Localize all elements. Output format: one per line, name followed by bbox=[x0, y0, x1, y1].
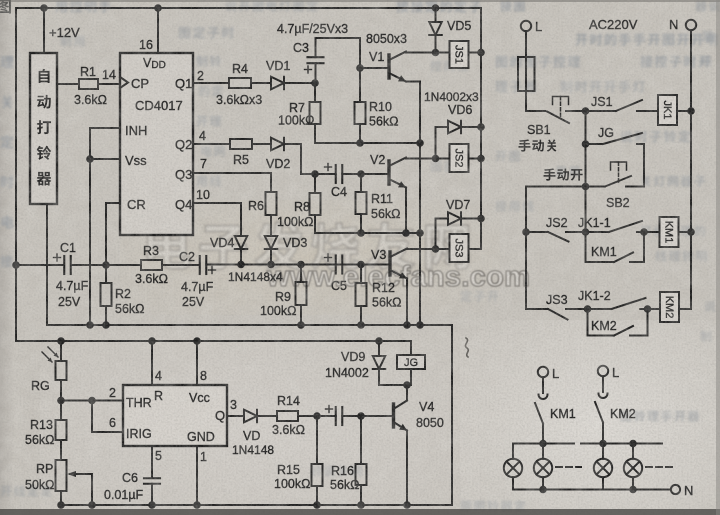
node +12V tap VD5 bbox=[432, 4, 440, 12]
wire JG to SB2 bbox=[643, 144, 645, 187]
node VD4 out bbox=[237, 261, 245, 269]
wire V1 base bbox=[360, 67, 389, 69]
wire rail corner to JG bbox=[410, 341, 412, 355]
node left rail C1 row bbox=[12, 261, 20, 269]
wire left +12V rail bbox=[15, 8, 17, 341]
wire lamp bus 2 bbox=[581, 443, 662, 445]
resistor R15 100k bbox=[316, 416, 318, 464]
transistor V1 bbox=[387, 55, 390, 78]
node V1 base bbox=[356, 64, 364, 72]
relay JS2 bbox=[436, 158, 450, 160]
lamp EL1 bbox=[504, 459, 522, 477]
node JS2 row left bbox=[522, 228, 530, 236]
capacitor C2 4.7uF/25V bbox=[200, 256, 207, 274]
node KM2 coil bbox=[644, 305, 652, 313]
node R9 gnd bbox=[297, 321, 305, 329]
resistor R16 56k bbox=[360, 416, 362, 464]
resistor R9 100k bbox=[300, 265, 302, 283]
wire rail to C1 bbox=[16, 264, 64, 266]
wire lamp1 gnd bbox=[512, 477, 514, 489]
node THR branch bbox=[88, 397, 96, 405]
wire V1 collector bbox=[406, 52, 436, 54]
node KM1 coil bbox=[640, 228, 648, 236]
label manual-on bbox=[544, 168, 556, 180]
capacitor C5 bbox=[336, 256, 343, 274]
resistor R3 bbox=[141, 260, 162, 270]
transistor V2 bbox=[387, 161, 390, 184]
resistor R4 bbox=[229, 78, 251, 88]
resistor R12 56k bbox=[360, 265, 362, 284]
capacitor C6 0.01uF bbox=[144, 478, 160, 484]
wire ground rail bottom bbox=[61, 504, 452, 506]
node RG tap bbox=[57, 337, 65, 345]
lamp EL4 bbox=[624, 459, 642, 477]
wire lamp1 drop bbox=[512, 444, 514, 459]
node V2 base bbox=[357, 170, 365, 178]
wire SB1 node down bbox=[585, 111, 587, 232]
wire lamp2 drop bbox=[542, 444, 544, 459]
node RP wiper gnd bbox=[88, 501, 96, 509]
wire ground row bbox=[47, 325, 452, 505]
terminal N bbox=[686, 20, 696, 30]
wire pin1 gnd bbox=[196, 446, 198, 505]
wire VD2 to C4 node bbox=[301, 144, 315, 174]
resistor R13 56k bbox=[60, 401, 62, 421]
node V1 emitter bus bbox=[416, 139, 424, 147]
node SB2 row bbox=[582, 183, 590, 191]
contact JK1-2 bbox=[588, 308, 612, 310]
capacitor C7 bbox=[336, 407, 343, 425]
wire Q1 pin2 bbox=[193, 82, 229, 84]
wire Q3 pin7 bbox=[193, 173, 271, 192]
node V3 collector bbox=[432, 245, 440, 253]
diode VD 1N4148 bbox=[244, 410, 257, 422]
wire INH to ground branch bbox=[90, 128, 120, 159]
pin CP clock triangle bbox=[120, 77, 128, 88]
node R16 gnd bbox=[357, 501, 365, 509]
contact KM2 parallel bbox=[587, 309, 589, 336]
node lamp4 top bbox=[629, 440, 637, 448]
node R10 bottom bbox=[356, 139, 364, 147]
node C4-R8 bbox=[311, 170, 319, 178]
node KM1-N bbox=[687, 228, 695, 236]
diode VD4 bbox=[235, 236, 247, 249]
node V2 collector bbox=[432, 155, 440, 163]
wire emitter row 1 bbox=[315, 142, 420, 144]
node V1 collector bbox=[432, 49, 440, 57]
wire right +12V relay bus bbox=[480, 8, 482, 249]
contact KM1 parallel bbox=[585, 232, 587, 262]
node JS3-JK12 bbox=[584, 305, 592, 313]
contact JK1-1 bbox=[586, 231, 609, 233]
wire V2 emitter down bbox=[405, 188, 407, 234]
node KM2 lamps bbox=[599, 440, 607, 448]
wire TRIG branch bbox=[92, 401, 123, 433]
node bus gnd bbox=[416, 321, 424, 329]
relay JG bbox=[397, 355, 425, 369]
IC U2 555 outline bbox=[123, 385, 227, 446]
wire VD9 JG join bbox=[379, 384, 411, 386]
contact JS1 bbox=[586, 110, 616, 112]
diode VD7 bbox=[436, 218, 449, 220]
wire lamp3 gnd bbox=[602, 477, 604, 489]
wire lamp bus 1 bbox=[513, 443, 574, 445]
dashes group1 bbox=[556, 466, 581, 468]
wire Vss to ground branch bbox=[90, 159, 120, 325]
wire +12V top bus bbox=[16, 7, 481, 9]
contact JS3 bbox=[548, 309, 568, 320]
wire lamp4 gnd bbox=[632, 477, 634, 489]
photoresistor RG bbox=[60, 341, 62, 361]
wire fuse to SB1 bbox=[526, 91, 545, 111]
transistor V4 bbox=[392, 404, 395, 427]
switch SB1 manual-off bbox=[547, 112, 569, 124]
wire V3 emitter bbox=[406, 279, 408, 326]
wire emitter row 2 bbox=[315, 232, 420, 234]
wire C3 top to V1 base bbox=[315, 38, 317, 57]
relay KM1 bbox=[644, 231, 660, 233]
relay JK1 bbox=[644, 110, 658, 112]
node lamp2 gnd bbox=[539, 486, 547, 494]
automatic bell ringer unit bbox=[30, 53, 57, 204]
node RP bottom gnd bbox=[57, 501, 65, 509]
lamp EL2 bbox=[534, 459, 552, 477]
node JS2 bus bbox=[477, 155, 485, 163]
wire N line bbox=[690, 30, 692, 309]
relay JS1 bbox=[436, 52, 450, 54]
wire bell unit output to ground rail bbox=[46, 204, 48, 325]
node VD9 tap bbox=[375, 337, 383, 345]
wire C3 bottom bbox=[315, 63, 317, 83]
node +12V tap bell bbox=[40, 4, 48, 12]
wire V4 collector bbox=[406, 385, 408, 401]
capacitor C3 4.7uF/25V bbox=[308, 57, 324, 63]
wire V2 base bbox=[361, 173, 389, 175]
resistor R1 bbox=[57, 83, 79, 85]
node V3 base bbox=[357, 261, 365, 269]
wire pin5 to C6 bbox=[151, 446, 153, 478]
node R15 bbox=[313, 412, 321, 420]
node V4 emitter gnd bbox=[403, 501, 411, 509]
node R2 ground bbox=[102, 321, 110, 329]
contact JG bbox=[586, 143, 604, 145]
capacitor C4 bbox=[336, 165, 343, 183]
wire C6 gnd bbox=[151, 484, 153, 505]
node reset CR/R2/R3 bbox=[102, 261, 110, 269]
contact JS2 bbox=[526, 231, 548, 233]
resistor R8 100k bbox=[314, 174, 316, 193]
wire JG to collector node bbox=[410, 369, 412, 385]
wire V2 collector bbox=[406, 158, 436, 160]
terminal L lamp2 bbox=[598, 366, 608, 376]
switch KM1 blade bbox=[542, 377, 544, 393]
resistor R10 56k bbox=[359, 68, 361, 102]
wire C1 to reset node bbox=[71, 264, 141, 266]
node R15 gnd bbox=[313, 501, 321, 509]
terminal L bbox=[521, 21, 531, 31]
wire Q2 pin4 bbox=[193, 143, 230, 145]
node THR bbox=[57, 397, 65, 405]
node KM1 lamps bbox=[539, 440, 547, 448]
wire VDD pin16 bbox=[157, 8, 159, 53]
terminal N lamps bbox=[671, 485, 680, 494]
node INH-Vss bbox=[86, 155, 94, 163]
node C6 gnd bbox=[148, 501, 156, 509]
node INH-Vss gnd bbox=[86, 321, 94, 329]
node R9 top bbox=[297, 261, 305, 269]
diode VD9 1N4002 bbox=[378, 341, 380, 356]
node row2 bus bbox=[416, 229, 424, 237]
diode VD2 bbox=[271, 138, 284, 150]
wire pin8 bbox=[196, 341, 198, 385]
wire C7 right bbox=[342, 415, 361, 417]
wire VD6 branch bbox=[435, 127, 437, 159]
resistor R2 56k bbox=[105, 265, 107, 283]
wire V3 collector bbox=[407, 248, 436, 250]
diode VD6 bbox=[436, 126, 449, 128]
node lamp4 gnd bbox=[629, 486, 637, 494]
wire Q4 pin10 bbox=[193, 203, 241, 236]
node JG row bbox=[582, 140, 590, 148]
wire lamp3 drop bbox=[602, 444, 604, 459]
relay KM2 bbox=[648, 308, 661, 310]
switch SB2 manual-on bbox=[586, 186, 606, 188]
resistor R5 bbox=[230, 139, 252, 149]
node JS1 bus bbox=[477, 49, 485, 57]
resistor R6 bbox=[266, 192, 277, 215]
node VD6 bus bbox=[477, 123, 485, 131]
switch KM2 blade bbox=[602, 376, 604, 392]
node VD7 bus bbox=[477, 215, 485, 223]
wire Q out bbox=[227, 415, 244, 417]
wire V4 base bbox=[361, 415, 394, 417]
node SB1-JS1 bbox=[582, 107, 590, 115]
resistor R11 56k bbox=[360, 174, 362, 192]
capacitor C1 4.7uF/25V bbox=[64, 256, 71, 274]
node V4 base bbox=[357, 412, 365, 420]
node V4 collector bbox=[403, 381, 411, 389]
diode VD5 bbox=[435, 8, 437, 22]
wire THR row bbox=[61, 400, 123, 402]
wire pin4 bbox=[151, 341, 153, 385]
node +12V tap VDD bbox=[154, 4, 162, 12]
IC U1 CD4017 outline bbox=[120, 53, 193, 235]
node V3 emitter gnd bbox=[403, 321, 411, 329]
wire +12V rail bottom bbox=[16, 340, 411, 342]
wire V1 emitter down bbox=[406, 82, 420, 326]
resistor R14 bbox=[277, 411, 298, 421]
node VD3 out bbox=[267, 261, 275, 269]
wire C4 right bbox=[342, 173, 361, 175]
wire L to fuse bbox=[525, 31, 527, 57]
wire C4 left bbox=[315, 173, 336, 175]
node pin8 tap bbox=[193, 337, 201, 345]
resistor R7 100k bbox=[314, 83, 316, 102]
wire +12V to bell unit bbox=[43, 8, 45, 53]
RP wiper arrow bbox=[70, 473, 92, 475]
diode VD3 bbox=[265, 236, 277, 249]
wire VD7 branch bbox=[435, 219, 437, 250]
node pin1 gnd bbox=[193, 501, 201, 509]
label manual-off bbox=[519, 139, 531, 151]
fuse FU bbox=[518, 57, 535, 91]
wire SB2 branch left bbox=[526, 187, 586, 233]
diode VD1 bbox=[271, 77, 284, 89]
node C3-R7 bbox=[311, 79, 319, 87]
terminal L lamp1 bbox=[538, 367, 548, 377]
photoresistor arrows bbox=[42, 347, 58, 362]
node R12 gnd bbox=[357, 321, 365, 329]
transistor V3 bbox=[388, 252, 391, 275]
relay JS3 bbox=[436, 248, 450, 250]
wire lamp4 drop bbox=[632, 444, 634, 459]
wire C2 to V3 base node bbox=[207, 264, 391, 266]
node R11 bottom bbox=[357, 229, 365, 237]
wire CR to reset node bbox=[106, 203, 120, 265]
dashes group2 bbox=[646, 466, 672, 468]
potentiometer RP bbox=[56, 460, 67, 491]
wire V4 emitter bbox=[406, 431, 408, 506]
lamp EL3 bbox=[594, 459, 612, 477]
wire lamp ground rail bbox=[513, 489, 671, 491]
wire C7 left bbox=[317, 415, 336, 417]
node JK1-N bbox=[687, 107, 695, 115]
wire lamp2 gnd bbox=[542, 477, 544, 489]
node V2 emitter bbox=[402, 229, 410, 237]
node JS2-JK11 bbox=[582, 228, 590, 236]
node pin4 tap bbox=[148, 337, 156, 345]
wire JS3 branch bbox=[526, 232, 548, 309]
